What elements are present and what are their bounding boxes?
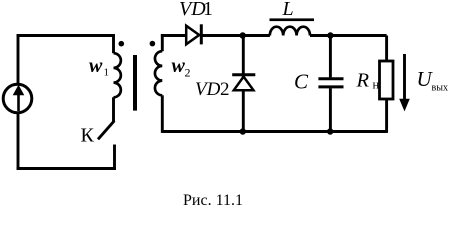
node: VD2 bottom junction [240, 128, 246, 134]
current source I1 [3, 84, 32, 113]
resistor Rн load branch top wire [385, 36, 388, 62]
wire: left loop left vertical [17, 34, 20, 170]
svg-text:н: н [373, 78, 380, 92]
svg-text:2: 2 [220, 79, 230, 100]
svg-text:R: R [356, 69, 370, 91]
switch K lower stub [113, 145, 116, 170]
label w2 [172, 55, 191, 80]
wire: bottom rail [162, 130, 386, 133]
winding w2 (transformer secondary) [155, 34, 162, 133]
svg-text:VD: VD [195, 79, 221, 100]
label Uвых [417, 67, 448, 94]
svg-text:w: w [172, 55, 186, 77]
svg-text:C: C [294, 70, 309, 94]
svg-text:2: 2 [185, 66, 191, 80]
wire: top rail w2 to diode [161, 34, 186, 37]
inductor L [270, 18, 315, 35]
winding w1 (transformer primary) [114, 34, 121, 121]
wire: top rail inductor to load corner [310, 34, 387, 37]
svg-text:К: К [81, 125, 95, 147]
transformer core [133, 55, 137, 111]
label VD2 [195, 79, 230, 100]
label w1 [89, 55, 109, 79]
switch K blade [98, 121, 114, 140]
arrow Uвых [399, 54, 410, 111]
resistor Rн [380, 61, 394, 99]
polarity dot w1 [119, 41, 125, 47]
node: capacitor bottom junction [327, 128, 333, 134]
svg-text:w: w [89, 55, 103, 77]
svg-text:вых: вых [432, 83, 448, 94]
svg-text:1: 1 [104, 67, 110, 79]
diode VD2 [232, 36, 255, 133]
svg-text:L: L [282, 0, 294, 20]
label Rн [356, 69, 380, 91]
wire: top rail diode to inductor [201, 34, 270, 37]
svg-text:1: 1 [203, 0, 213, 20]
wire: left loop bottom [17, 167, 116, 170]
node: VD2 top junction [240, 32, 246, 38]
node: capacitor top junction [327, 32, 333, 38]
wire: left loop top [17, 34, 115, 37]
capacitor C [318, 36, 343, 133]
diode VD1 [186, 24, 201, 44]
polarity dot w2 [150, 41, 156, 47]
svg-text:Рис. 11.1: Рис. 11.1 [183, 192, 243, 209]
resistor Rн bottom wire [385, 99, 388, 133]
label VD1 [179, 0, 213, 20]
